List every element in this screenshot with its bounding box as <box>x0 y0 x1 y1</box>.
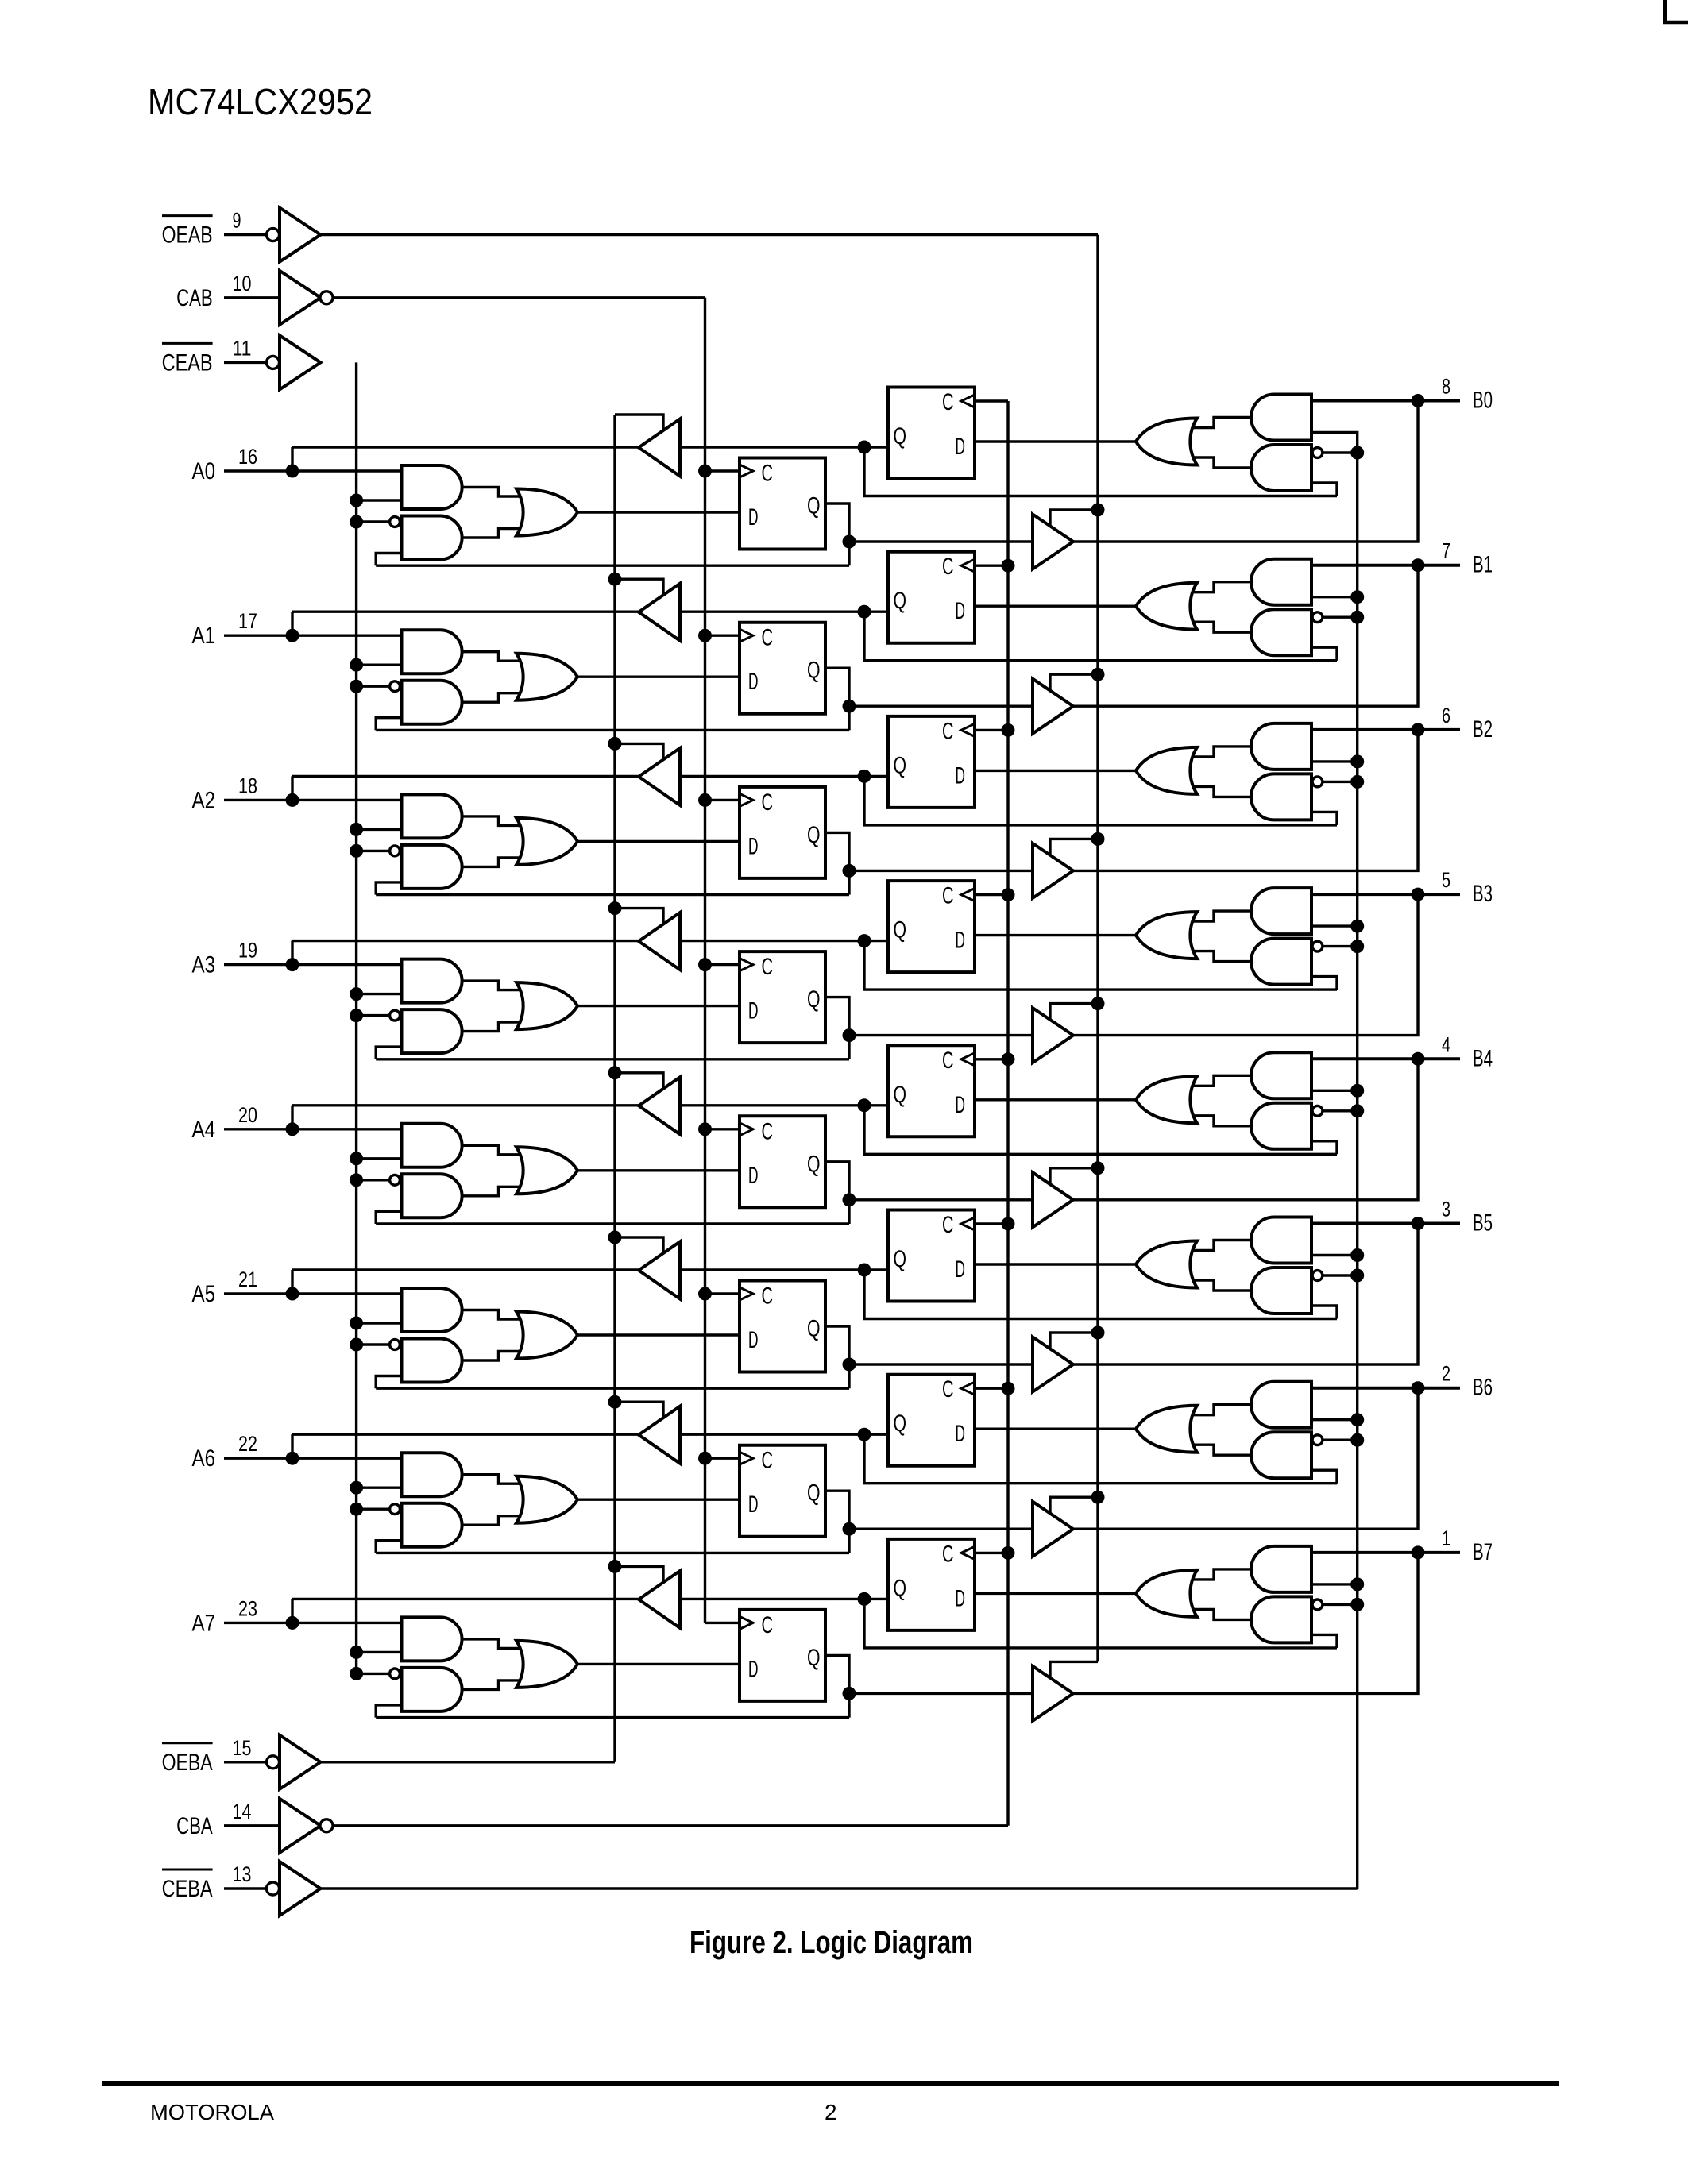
wire CEAB vertical rail <box>355 362 357 1673</box>
wire CEBA step to AND-B4 select input <box>1311 1090 1358 1111</box>
wire A-bus line A1 (BA driver output / FF-BA1 Q line) <box>292 611 888 613</box>
svg-text:D: D <box>956 762 966 789</box>
junction OEAB enable tap slice 2 <box>1091 832 1105 846</box>
svg-text:21: 21 <box>238 1268 257 1291</box>
NAND gate NAND-B6 (B-to-A hold path) <box>1251 1432 1311 1478</box>
wire BA7 tri-state enable step <box>615 1566 663 1583</box>
wire NAND-B6 output step <box>1188 1445 1252 1455</box>
junction FF-AB7 Q node <box>843 1687 856 1700</box>
junction CEBA step tap slice 1 <box>1350 590 1364 604</box>
wire BA2 tri-state enable step <box>615 743 663 760</box>
svg-text:3: 3 <box>1442 1198 1450 1221</box>
wire AB7 tri-state enable step <box>1050 1661 1098 1678</box>
svg-text:19: 19 <box>238 939 257 963</box>
wire NAND-B0 bubble to CEBA tap <box>1323 451 1358 453</box>
wire AND-B7 output step <box>1188 1569 1252 1580</box>
wire CEAB to NAND-A5 hold bubble <box>357 1343 389 1345</box>
wire B1 output pin 7 <box>1311 564 1460 567</box>
wire NAND-A6 hold feedback input <box>376 1541 401 1553</box>
wire A5 node stub <box>291 1270 293 1294</box>
wire CEAB to NAND-A3 hold bubble <box>357 1014 389 1017</box>
buffer CEAB <box>280 335 321 389</box>
clock wedge FF-BA1 <box>961 559 975 572</box>
junction CEAB tap NAND-A3 <box>350 1009 363 1022</box>
wire A-bus line A6 (BA driver output / FF-BA6 Q line) <box>292 1433 888 1435</box>
tri-state buffer BA2 (drives A2) <box>639 748 680 805</box>
junction FF-BA1 Q node <box>858 605 871 619</box>
wire CEBA step to AND-B0 select input <box>1311 433 1358 453</box>
svg-text:D: D <box>956 1256 966 1283</box>
junction OEAB enable tap slice 5 <box>1091 1326 1105 1340</box>
junction FF-BA7 Q node <box>858 1592 871 1606</box>
junction CBA clock tap slice 4 <box>1002 1052 1015 1066</box>
junction B3 node <box>1412 888 1425 901</box>
overline for CEBA label <box>162 1869 213 1871</box>
wire CBA clock tap to FF-BA6 C <box>975 1387 1008 1389</box>
wire AND-A0 output step <box>462 488 524 497</box>
NAND gate NAND-A7 (A-to-B hold path) <box>402 1668 462 1711</box>
wire A0 input pin 16 <box>224 469 402 472</box>
junction OEBA enable tap slice 1 <box>608 573 622 586</box>
page corner mark top right <box>1665 0 1688 22</box>
wire CEAB to NAND-A6 hold bubble <box>357 1507 389 1510</box>
inverting bubble NAND-B7 select input <box>1312 1599 1323 1610</box>
svg-text:11: 11 <box>233 336 252 360</box>
wire FF-AB5 Q output <box>825 1326 849 1388</box>
svg-text:Q: Q <box>807 658 821 684</box>
flip-flop FF-AB3 box <box>740 951 825 1043</box>
svg-text:17: 17 <box>238 609 257 633</box>
svg-text:Q: Q <box>807 986 821 1013</box>
wire NAND-B3 output step <box>1188 951 1252 962</box>
wire NAND-B4 bubble to CEBA tap <box>1323 1109 1358 1112</box>
AND gate AND-B2 (B-to-A load path) <box>1251 723 1311 770</box>
svg-text:D: D <box>748 1163 759 1189</box>
svg-text:B6: B6 <box>1473 1375 1493 1401</box>
junction CEAB tap NAND-A1 <box>350 680 363 693</box>
junction CEBA step tap slice 2 <box>1350 754 1364 768</box>
flip-flop FF-BA0 box <box>888 388 975 479</box>
tri-state buffer AB1 (drives B1) <box>1033 679 1073 734</box>
svg-text:B7: B7 <box>1473 1539 1493 1565</box>
OR gate OR-A1 (A-to-B mux) <box>516 654 577 700</box>
junction FF-AB6 Q node <box>843 1522 856 1536</box>
wire CBA output to vertical rail <box>333 1824 1009 1827</box>
NAND gate NAND-A4 (A-to-B hold path) <box>402 1174 462 1217</box>
AND gate AND-A4 (A-to-B load path) <box>402 1124 462 1167</box>
inverting bubble NAND-A3 select input <box>390 1010 400 1021</box>
junction FF-BA5 Q node <box>858 1264 871 1277</box>
wire A4 input pin 20 <box>224 1128 402 1130</box>
wire CEAB to NAND-A2 hold bubble <box>357 850 389 852</box>
junction FF-BA2 Q node <box>858 770 871 783</box>
wire AND-A7 output step <box>462 1639 524 1649</box>
wire CEBA step to AND-B1 select input <box>1311 597 1358 618</box>
junction CEBA step tap slice 6 <box>1350 1413 1364 1426</box>
junction FF-AB0 Q node <box>843 535 856 549</box>
svg-text:D: D <box>748 1656 759 1682</box>
wire FF-AB2 Q to AB2 tri-state input <box>849 870 1033 872</box>
wire CBA clock tap to FF-BA2 C <box>975 729 1008 731</box>
svg-text:D: D <box>956 1421 966 1447</box>
junction CEAB tap AND-A0 <box>350 494 363 507</box>
junction CEAB tap AND-A3 <box>350 987 363 1001</box>
wire FF-AB4 feedback return <box>376 1222 849 1225</box>
wire AND-B0 output step <box>1188 418 1252 428</box>
wire NAND-A5 hold feedback input <box>376 1376 401 1389</box>
wire NAND-A6 output step <box>462 1516 524 1526</box>
flip-flop FF-BA1 box <box>888 552 975 643</box>
wire CEAB to AND-A7 select input <box>357 1651 402 1653</box>
svg-text:C: C <box>942 883 954 909</box>
wire FF-AB7 Q output <box>825 1655 849 1717</box>
svg-text:C: C <box>762 1283 774 1310</box>
junction CEBA step tap slice 7 <box>1350 1577 1364 1591</box>
wire OEAB input pin 9 <box>224 233 267 236</box>
wire OR-A4 output to FF-AB4 D <box>577 1169 740 1171</box>
AND gate AND-B4 (B-to-A load path) <box>1251 1052 1311 1098</box>
junction B0 node <box>1412 394 1425 407</box>
wire FF-AB2 Q output <box>825 832 849 894</box>
wire NAND-B1 bubble to CEBA tap <box>1323 616 1358 619</box>
svg-text:CEBA: CEBA <box>162 1876 213 1902</box>
AND gate AND-B3 (B-to-A load path) <box>1251 888 1311 934</box>
wire B2 output pin 6 <box>1311 728 1460 731</box>
overline for OEAB label <box>162 214 213 217</box>
OR gate OR-B5 (B-to-A mux) <box>1136 1241 1197 1288</box>
junction CEBA tap slice 2 <box>1350 775 1364 789</box>
AND gate AND-A5 (A-to-B load path) <box>402 1288 462 1332</box>
svg-text:D: D <box>956 1585 966 1611</box>
wire NAND-A7 hold feedback input <box>376 1705 401 1718</box>
wire A-bus line A2 (BA driver output / FF-BA2 Q line) <box>292 775 888 778</box>
svg-text:D: D <box>956 928 966 954</box>
svg-text:OEAB: OEAB <box>162 222 213 249</box>
junction CEAB tap NAND-A2 <box>350 844 363 858</box>
OR gate OR-A2 (A-to-B mux) <box>516 818 577 865</box>
svg-text:8: 8 <box>1442 375 1450 399</box>
tri-state buffer BA3 (drives A3) <box>639 913 680 970</box>
junction OEAB enable tap slice 6 <box>1091 1491 1105 1504</box>
tri-state buffer BA0 (drives A0) <box>639 419 680 477</box>
svg-text:Q: Q <box>807 1316 821 1342</box>
wire OEBA vertical rail <box>613 415 616 1762</box>
wire B4 output pin 4 <box>1311 1057 1460 1060</box>
wire NAND-A1 hold feedback input <box>376 718 401 731</box>
wire NAND-B2 hold feedback input <box>1311 812 1337 825</box>
wire A-bus line A3 (BA driver output / FF-BA3 Q line) <box>292 940 888 942</box>
wire BA3 tri-state enable step <box>615 909 663 925</box>
junction OEBA enable tap slice 3 <box>608 901 622 915</box>
NAND gate NAND-A2 (A-to-B hold path) <box>402 845 462 889</box>
svg-text:C: C <box>762 1612 774 1638</box>
junction CAB clock tap slice 1 <box>698 629 712 642</box>
svg-text:C: C <box>762 1448 774 1474</box>
wire FF-AB6 Q to AB6 tri-state input <box>849 1527 1033 1530</box>
junction CBA clock tap slice 1 <box>1002 559 1015 573</box>
wire CEAB to AND-A2 select input <box>357 828 402 831</box>
wire NAND-B7 bubble to CEBA tap <box>1323 1603 1358 1606</box>
svg-text:C: C <box>762 789 774 816</box>
svg-text:16: 16 <box>238 445 257 469</box>
svg-text:C: C <box>762 954 774 980</box>
svg-text:10: 10 <box>233 272 252 295</box>
wire NAND-B2 output step <box>1188 786 1252 797</box>
tri-state buffer AB4 (drives B4) <box>1033 1172 1073 1227</box>
svg-text:14: 14 <box>233 1800 252 1823</box>
wire CEBA output to vertical rail <box>321 1887 1358 1889</box>
junction CAB clock tap slice 5 <box>698 1287 712 1301</box>
tri-state buffer BA5 (drives A5) <box>639 1242 680 1299</box>
junction CEBA tap slice 0 <box>1350 446 1364 460</box>
NAND gate NAND-B1 (B-to-A hold path) <box>1251 609 1311 655</box>
wire FF-AB1 Q to AB1 tri-state input <box>849 705 1033 708</box>
OR gate OR-B1 (B-to-A mux) <box>1136 583 1197 630</box>
svg-text:Q: Q <box>894 1246 907 1272</box>
svg-text:B5: B5 <box>1473 1210 1493 1237</box>
wire AND-B2 output step <box>1188 747 1252 757</box>
svg-text:A2: A2 <box>192 787 216 813</box>
buffer CEBA <box>280 1862 321 1916</box>
OR gate OR-A3 (A-to-B mux) <box>516 982 577 1029</box>
wire AB5 tri-state output to B5 node <box>1073 1224 1418 1365</box>
wire AB0 tri-state enable step <box>1050 510 1098 527</box>
clock wedge FF-AB4 <box>740 1123 753 1136</box>
junction CEAB tap AND-A1 <box>350 658 363 672</box>
clock wedge FF-AB1 <box>740 629 753 642</box>
wire AB7 tri-state output to B7 node <box>1073 1553 1418 1693</box>
wire OEBA output to vertical rail <box>321 1761 616 1763</box>
wire A7 node stub <box>291 1599 293 1623</box>
tri-state buffer AB6 (drives B6) <box>1033 1502 1073 1557</box>
wire CEBA vertical rail <box>1356 453 1358 1889</box>
wire AND-B4 output step <box>1188 1075 1252 1086</box>
wire CAB vertical rail <box>704 298 706 1623</box>
junction OEBA enable tap slice 6 <box>608 1395 622 1409</box>
svg-text:4: 4 <box>1442 1032 1450 1056</box>
tri-state buffer BA1 (drives A1) <box>639 584 680 641</box>
junction CAB clock tap slice 4 <box>698 1122 712 1136</box>
junction CEBA step tap slice 5 <box>1350 1248 1364 1262</box>
wire A6 node stub <box>291 1434 293 1458</box>
wire FF-AB7 Q to AB7 tri-state input <box>849 1692 1033 1695</box>
junction CEAB tap AND-A2 <box>350 823 363 836</box>
junction OEAB enable tap slice 3 <box>1091 997 1105 1010</box>
flip-flop FF-BA3 box <box>888 881 975 972</box>
junction CAB clock tap slice 0 <box>698 465 712 478</box>
junction A7 node <box>286 1616 299 1630</box>
svg-text:OEBA: OEBA <box>162 1750 213 1776</box>
flip-flop FF-BA2 box <box>888 716 975 808</box>
wire A6 input pin 22 <box>224 1457 402 1459</box>
wire FF-AB0 feedback return <box>376 565 849 567</box>
tri-state buffer BA4 (drives A4) <box>639 1077 680 1134</box>
wire AND-A1 output step <box>462 652 524 662</box>
wire FF-AB7 feedback return <box>376 1716 849 1719</box>
NAND gate NAND-A3 (A-to-B hold path) <box>402 1009 462 1053</box>
wire CAB input pin 10 <box>224 296 280 299</box>
svg-text:D: D <box>748 669 759 695</box>
junction A6 node <box>286 1452 299 1465</box>
svg-text:7: 7 <box>1442 539 1450 563</box>
inverting bubble on CEAB buffer input <box>267 356 280 369</box>
NAND gate NAND-A6 (A-to-B hold path) <box>402 1503 462 1547</box>
wire A-bus line A4 (BA driver output / FF-BA4 Q line) <box>292 1104 888 1106</box>
svg-text:D: D <box>748 833 759 859</box>
OR gate OR-B0 (B-to-A mux) <box>1136 419 1197 465</box>
inverting bubble NAND-B3 select input <box>1312 941 1323 951</box>
wire NAND-A0 hold feedback input <box>376 554 401 566</box>
svg-text:D: D <box>956 1092 966 1118</box>
wire CBA input pin 14 <box>224 1824 280 1827</box>
svg-text:C: C <box>942 718 954 744</box>
inverting bubble NAND-B6 select input <box>1312 1435 1323 1445</box>
wire OR-B5 output to FF-BA5 D <box>975 1263 1136 1265</box>
NAND gate NAND-B3 (B-to-A hold path) <box>1251 939 1311 985</box>
svg-text:B3: B3 <box>1473 881 1493 907</box>
wire AB6 tri-state output to B6 node <box>1073 1388 1418 1530</box>
wire BA5 tri-state enable step <box>615 1237 663 1254</box>
inverting bubble NAND-B1 select input <box>1312 612 1323 623</box>
wire FF-AB3 Q output <box>825 997 849 1059</box>
wire CBA vertical rail <box>1006 401 1009 1826</box>
junction A4 node <box>286 1122 299 1136</box>
junction A2 node <box>286 793 299 807</box>
inverting bubble on CAB buffer output <box>320 291 333 304</box>
overline for CEAB label <box>162 342 213 345</box>
svg-text:Q: Q <box>894 588 907 614</box>
svg-text:D: D <box>748 504 759 531</box>
wire NAND-B0 hold feedback input <box>1311 483 1337 496</box>
wire CEAB to AND-A1 select input <box>357 664 402 666</box>
wire OR-B0 output to FF-BA0 D <box>975 440 1136 442</box>
junction CEAB tap AND-A6 <box>350 1481 363 1495</box>
wire NAND-A2 output step <box>462 858 524 867</box>
inverting bubble NAND-A0 select input <box>390 517 400 527</box>
svg-text:B2: B2 <box>1473 716 1493 743</box>
svg-text:Q: Q <box>894 423 907 450</box>
wire CEBA step to AND-B6 select input <box>1311 1420 1358 1441</box>
inverting bubble on CBA buffer output <box>320 1819 333 1832</box>
wire AB0 tri-state output to B0 node <box>1073 401 1418 542</box>
svg-text:D: D <box>956 598 966 624</box>
svg-text:D: D <box>748 1327 759 1353</box>
svg-text:Q: Q <box>807 822 821 848</box>
wire OR-A2 output to FF-AB2 D <box>577 840 740 843</box>
junction CEBA tap slice 5 <box>1350 1269 1364 1283</box>
wire FF-AB1 feedback return <box>376 729 849 731</box>
buffer CBA <box>280 1799 321 1853</box>
clock wedge FF-BA7 <box>961 1546 975 1559</box>
wire A5 input pin 21 <box>224 1292 402 1295</box>
wire A3 node stub <box>291 941 293 965</box>
flip-flop FF-AB0 box <box>740 458 825 550</box>
svg-text:C: C <box>942 389 954 415</box>
inverting bubble on OEAB buffer input <box>267 229 280 241</box>
wire A-bus line A5 (BA driver output / FF-BA5 Q line) <box>292 1268 888 1271</box>
svg-text:D: D <box>748 998 759 1024</box>
wire NAND-A2 hold feedback input <box>376 882 401 895</box>
junction B7 node <box>1412 1545 1425 1559</box>
NAND gate NAND-B5 (B-to-A hold path) <box>1251 1268 1311 1314</box>
junction A0 node <box>286 465 299 478</box>
svg-text:Q: Q <box>894 1082 907 1108</box>
svg-text:23: 23 <box>238 1596 257 1620</box>
wire NAND-A3 hold feedback input <box>376 1047 401 1059</box>
wire CBA clock tap to FF-BA3 C <box>975 893 1008 896</box>
wire OR-A0 output to FF-AB0 D <box>577 511 740 513</box>
junction CEAB tap NAND-A6 <box>350 1503 363 1516</box>
wire NAND-A0 output step <box>462 529 524 538</box>
wire NAND-A5 output step <box>462 1352 524 1361</box>
junction CBA clock tap slice 6 <box>1002 1382 1015 1395</box>
OR gate OR-A0 (A-to-B mux) <box>516 489 577 536</box>
wire A2 input pin 18 <box>224 799 402 801</box>
wire NAND-A1 output step <box>462 693 524 703</box>
svg-text:B0: B0 <box>1473 388 1493 414</box>
wire CEAB to AND-A6 select input <box>357 1486 402 1488</box>
flip-flop FF-AB4 box <box>740 1116 825 1207</box>
buffer CAB <box>280 271 321 325</box>
wire A0 node stub <box>291 447 293 471</box>
wire AND-B6 output step <box>1188 1405 1252 1415</box>
wire CEAB to NAND-A0 hold bubble <box>357 520 389 523</box>
wire CEAB to AND-A5 select input <box>357 1322 402 1324</box>
wire CEAB to AND-A4 select input <box>357 1157 402 1160</box>
wire OR-A3 output to FF-AB3 D <box>577 1005 740 1007</box>
wire BA0 tri-state enable step <box>615 415 663 431</box>
wire NAND-B5 bubble to CEBA tap <box>1323 1274 1358 1276</box>
inverting bubble NAND-A7 select input <box>390 1669 400 1679</box>
wire OR-B1 output to FF-BA1 D <box>975 605 1136 608</box>
flip-flop FF-BA4 box <box>888 1045 975 1136</box>
svg-text:C: C <box>942 1212 954 1238</box>
wire FF-BA0 feedback return <box>864 447 1337 496</box>
wire AB2 tri-state output to B2 node <box>1073 730 1418 871</box>
wire CAB clock tap to FF-AB7 C <box>705 1622 740 1624</box>
wire CAB clock tap to FF-AB6 C <box>705 1457 740 1459</box>
junction CEBA tap slice 1 <box>1350 611 1364 624</box>
wire CEAB to AND-A0 select input <box>357 499 402 501</box>
wire OR-B7 output to FF-BA7 D <box>975 1592 1136 1595</box>
clock wedge FF-BA5 <box>961 1217 975 1230</box>
junction CEBA tap slice 7 <box>1350 1598 1364 1611</box>
junction CAB clock tap slice 2 <box>698 793 712 807</box>
junction A5 node <box>286 1287 299 1301</box>
AND gate AND-B5 (B-to-A load path) <box>1251 1217 1311 1264</box>
wire CAB clock tap to FF-AB1 C <box>705 635 740 637</box>
svg-text:Q: Q <box>807 493 821 519</box>
wire CAB output to vertical rail <box>333 296 705 299</box>
svg-text:13: 13 <box>233 1862 252 1886</box>
wire FF-AB5 Q to AB5 tri-state input <box>849 1363 1033 1365</box>
wire A1 input pin 17 <box>224 635 402 637</box>
junction CEAB tap NAND-A0 <box>350 515 363 529</box>
junction A1 node <box>286 629 299 642</box>
wire CAB clock tap to FF-AB0 C <box>705 469 740 472</box>
svg-text:A1: A1 <box>192 623 216 649</box>
svg-text:Q: Q <box>807 1645 821 1671</box>
wire FF-AB6 Q output <box>825 1491 849 1553</box>
wire FF-BA7 feedback return <box>864 1599 1337 1647</box>
wire AND-A2 output step <box>462 816 524 826</box>
junction CEAB tap NAND-A5 <box>350 1338 363 1352</box>
junction CEBA tap slice 6 <box>1350 1433 1364 1447</box>
svg-text:D: D <box>748 1491 759 1518</box>
OR gate OR-B6 (B-to-A mux) <box>1136 1406 1197 1453</box>
svg-text:MC74LCX2952: MC74LCX2952 <box>148 81 373 122</box>
wire CBA clock tap to FF-BA0 C <box>975 399 1008 402</box>
